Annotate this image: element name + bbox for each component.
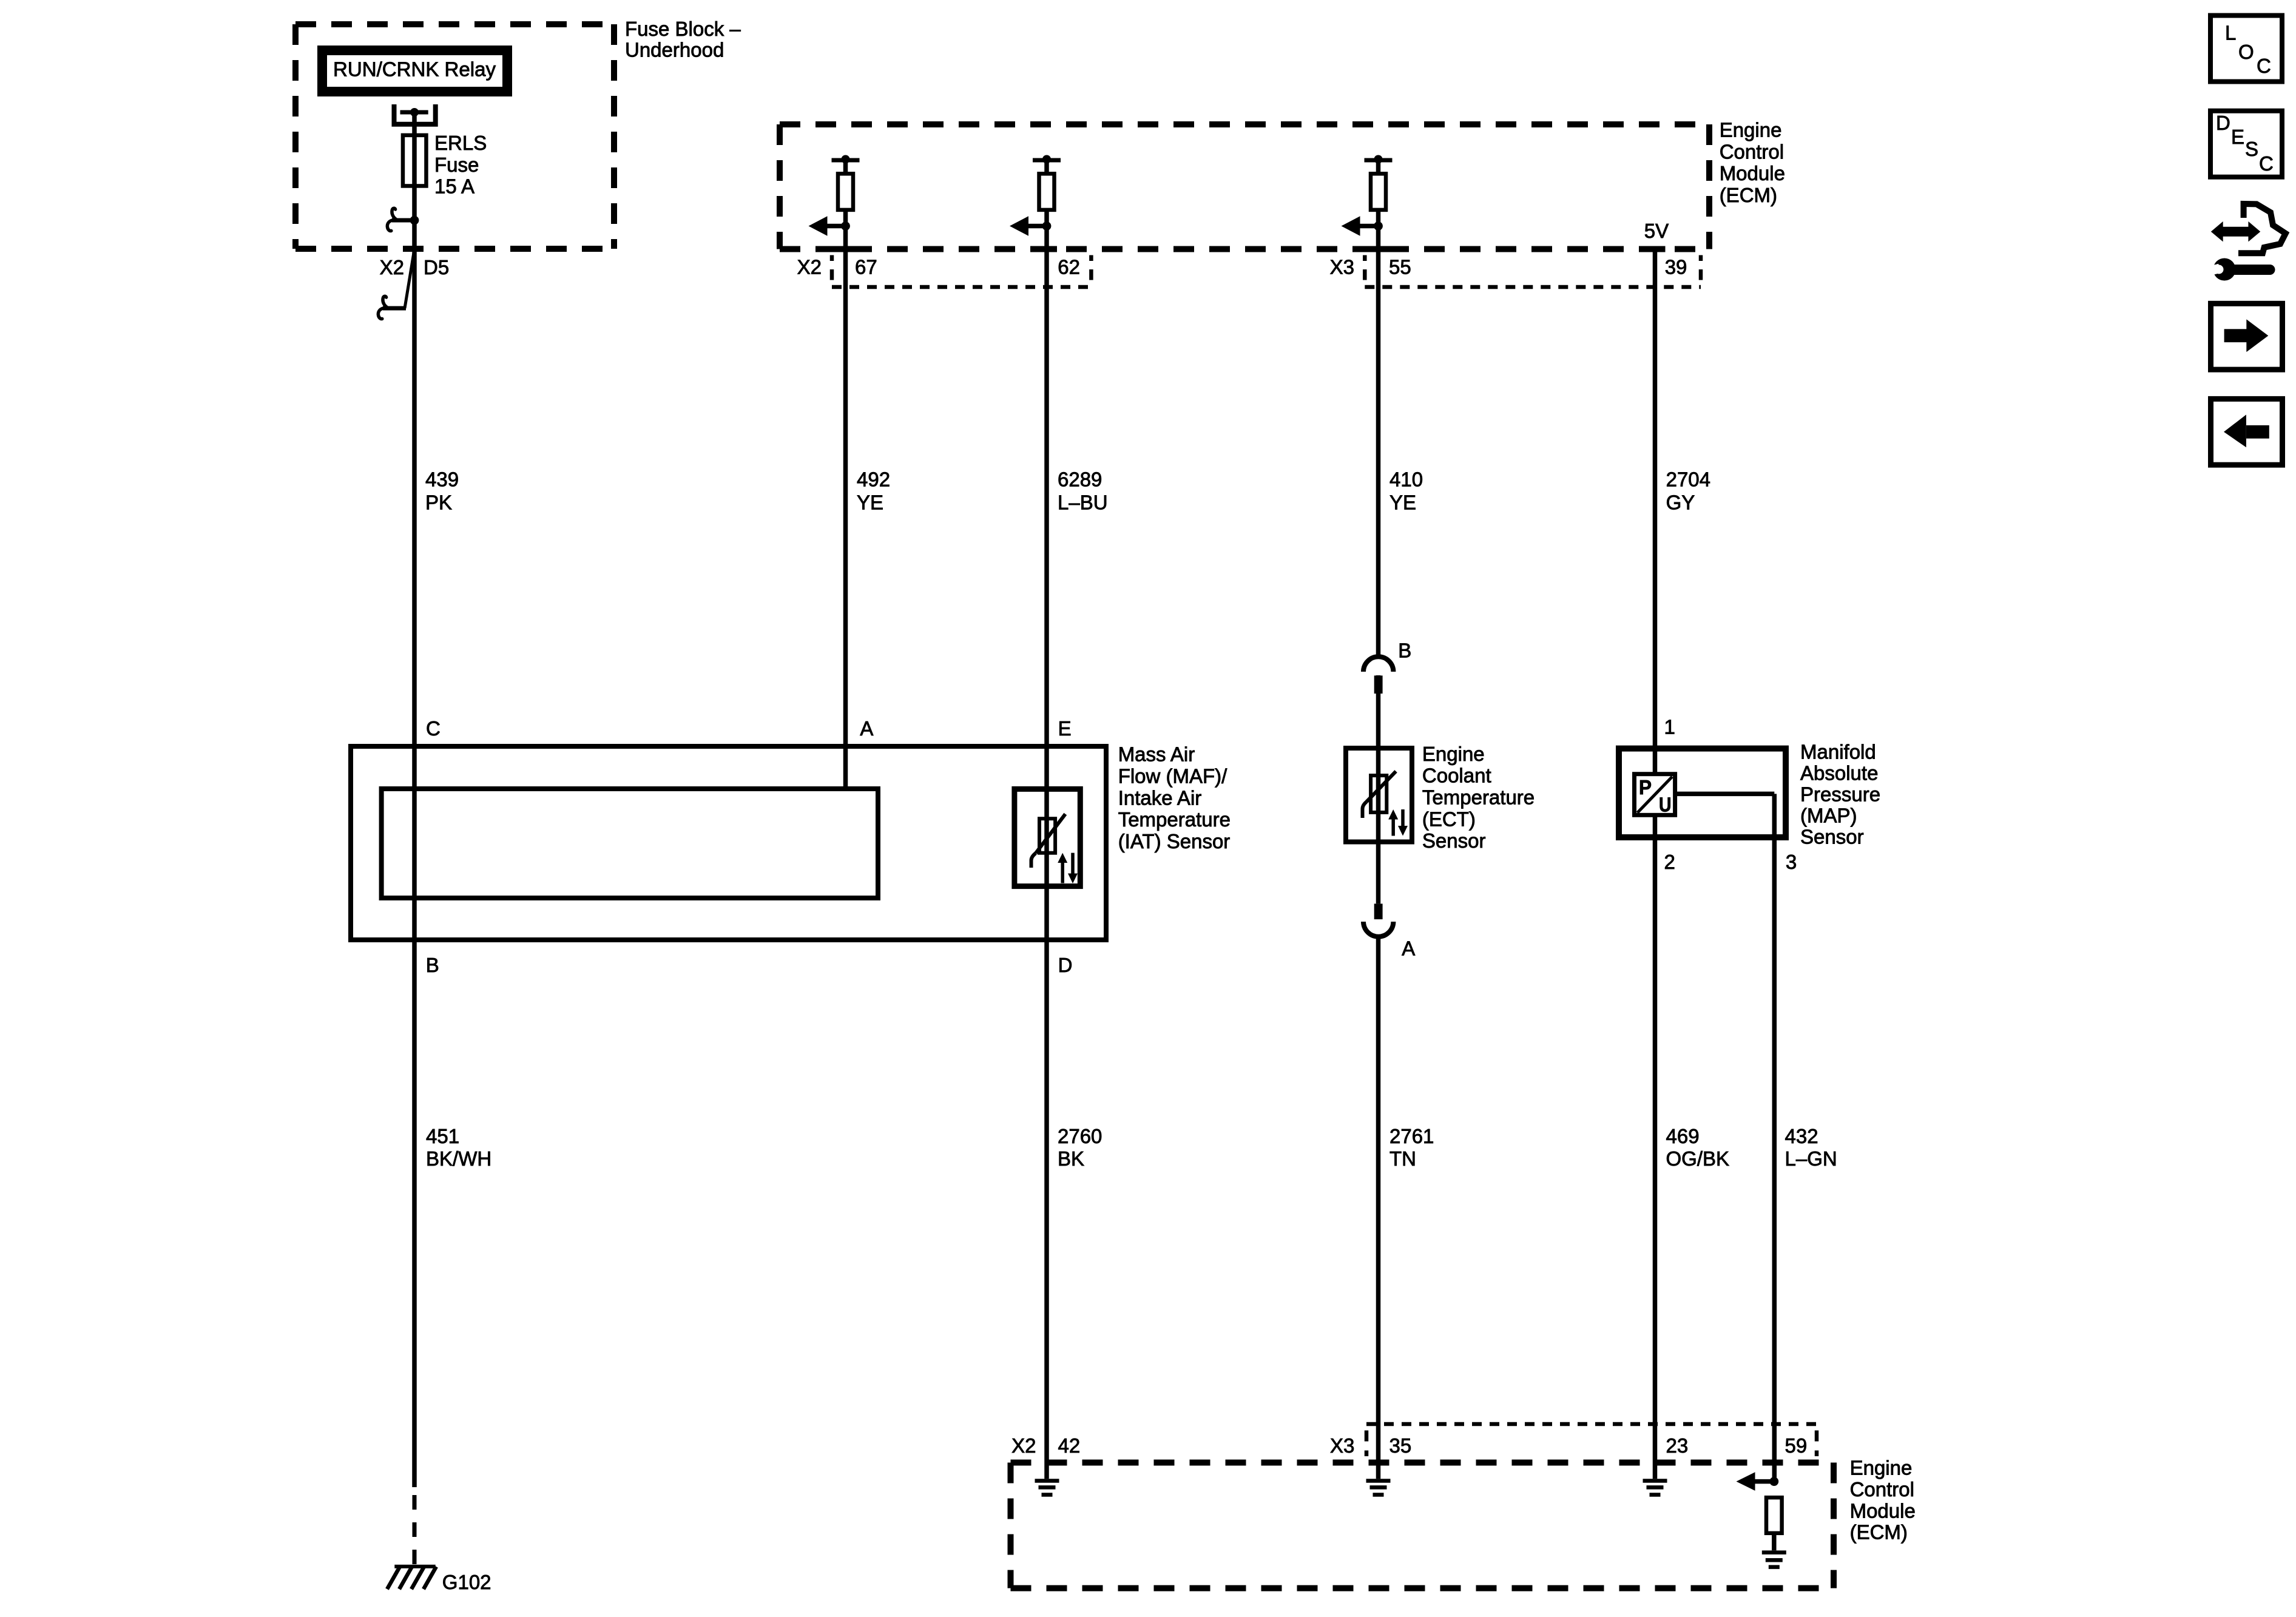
svg-text:E: E [2231,126,2244,148]
svg-text:Sensor: Sensor [1800,826,1864,848]
wire 469 OG/BK segment below P/U [1653,815,1658,1479]
ECT up arrow [1388,809,1398,836]
ECM top dashed box [780,124,1709,249]
wire label 410 YE [1389,468,1423,513]
ground at pin 23 [1643,1481,1667,1495]
svg-text:Temperature: Temperature [1118,808,1231,831]
svg-text:ERLS: ERLS [434,132,487,154]
svg-text:L: L [2225,22,2236,44]
svg-text:Engine: Engine [1720,119,1782,141]
svg-text:492: 492 [857,468,890,490]
ground at pin 35 [1366,1481,1391,1495]
svg-text:Sensor: Sensor [1422,829,1486,852]
terminal clip at junction [387,208,414,231]
wire inside ECT [1376,748,1381,903]
svg-text:C: C [426,717,441,740]
IAT thermistor RT [1032,814,1065,868]
svg-text:YE: YE [857,491,883,513]
ground G102 symbol [387,1567,436,1589]
ECT connector half-circle B [1363,657,1393,672]
junction dot below fuse [410,216,419,225]
MAF/IAT sensor outer box [351,746,1106,940]
svg-text:O: O [2238,41,2254,63]
MAF inner element box [382,789,878,898]
ECM bottom dashed box [1011,1463,1834,1588]
dashed wire to ground G102 [413,1495,417,1565]
icon engine outline [2238,204,2286,253]
fuse F ERLS 15A [403,135,427,186]
svg-text:U: U [1659,794,1672,816]
svg-text:Control: Control [1850,1478,1914,1501]
pin labels bottom ECM [1011,1434,1807,1457]
svg-text:39: 39 [1665,256,1687,279]
wire label 2704 GY [1666,468,1710,513]
svg-text:X2: X2 [797,256,822,279]
fuse block label [625,18,741,61]
terminal clip at X2/D5 [378,296,406,319]
svg-text:Mass Air: Mass Air [1118,743,1195,766]
svg-text:2760: 2760 [1058,1125,1102,1147]
ECT sensor label [1422,743,1535,852]
svg-text:42: 42 [1058,1434,1081,1457]
MAP transducer diagonal [1638,777,1673,813]
wire label 492 YE [857,468,890,513]
ECT sensor box [1346,748,1412,842]
svg-text:OG/BK: OG/BK [1666,1147,1730,1170]
svg-text:P: P [1639,776,1652,798]
IAT element box [1015,789,1080,886]
svg-text:451: 451 [426,1125,459,1147]
resistor R-ECM1 (pin 67 pull-up) [832,155,860,226]
svg-text:S: S [2245,138,2258,160]
wire 410 YE upper segment [1376,226,1381,660]
pin labels top ECM [797,256,1687,279]
wire 2704 GY upper segment [1653,249,1658,774]
svg-text:X2: X2 [380,256,404,279]
svg-text:(MAP): (MAP) [1800,805,1857,827]
svg-text:Intake Air: Intake Air [1118,786,1202,809]
svg-text:5V: 5V [1644,220,1669,242]
junction dot and arrow at pin 59 [1737,1472,1779,1491]
icon diagnostic double arrow [2211,221,2261,242]
ground at pin 42 [1035,1481,1059,1495]
fuse holder cup bracket [394,104,436,124]
IAT down arrow [1068,853,1078,883]
wire 6289 L-BU / 2760 BK [1044,226,1049,1479]
connector pin box X3 bottom (35..23..59) [1366,1424,1817,1456]
wire label 469 OG/BK [1666,1125,1730,1170]
relay K? RUN/CRNK Relay box [322,50,507,92]
svg-text:C: C [2257,55,2271,77]
svg-text:BK/WH: BK/WH [426,1147,491,1170]
svg-text:1: 1 [1664,716,1675,738]
svg-text:Temperature: Temperature [1422,786,1535,809]
svg-text:Fuse: Fuse [434,154,479,176]
svg-text:B: B [426,954,439,976]
svg-text:G102: G102 [442,1571,491,1593]
wire label 2761 TN [1389,1125,1434,1170]
MAP pin numbers [1664,716,1797,874]
svg-text:6289: 6289 [1058,468,1102,490]
junction dot at fuse top [410,108,419,116]
resistor R-ECM4 (pin 59) [1766,1497,1782,1550]
ECT connector half-circle A [1363,922,1393,937]
resistor R-ECM2 (pin 62 pull-up) [1033,155,1061,226]
svg-text:432: 432 [1785,1125,1818,1147]
svg-text:PK: PK [425,491,452,513]
wire 492 YE [843,226,848,789]
svg-text:BK: BK [1058,1147,1084,1170]
connector pin box X3 (55..39) [1365,255,1701,288]
svg-text:Fuse Block –: Fuse Block – [625,18,741,40]
svg-text:Flow (MAF)/: Flow (MAF)/ [1118,765,1227,788]
wire label 451 BK/WH [426,1125,491,1170]
svg-text:L–GN: L–GN [1785,1147,1837,1170]
MAP sensor label [1800,740,1880,848]
svg-text:TN: TN [1389,1147,1416,1170]
svg-text:35: 35 [1389,1434,1412,1457]
svg-text:Module: Module [1720,162,1785,184]
svg-text:X2: X2 [1011,1434,1036,1457]
MAF sensor label [1118,743,1231,852]
svg-text:62: 62 [1058,256,1080,279]
MAP P/U transducer square [1635,774,1675,815]
svg-text:E: E [1058,717,1072,740]
svg-text:469: 469 [1666,1125,1700,1147]
svg-text:3: 3 [1786,851,1797,873]
wire 432 L-GN [1772,794,1777,1481]
ECT down arrow [1398,809,1408,836]
svg-text:(ECT): (ECT) [1422,808,1476,830]
svg-text:Pressure: Pressure [1800,783,1880,806]
svg-text:2: 2 [1664,851,1675,873]
svg-text:X3: X3 [1330,256,1354,279]
svg-text:Module: Module [1850,1499,1916,1522]
svg-text:(ECM): (ECM) [1720,184,1777,206]
svg-text:A: A [1402,937,1415,959]
wire label 439 PK [425,468,459,513]
svg-text:439: 439 [425,468,459,490]
svg-text:GY: GY [1666,491,1695,513]
IAT up arrow [1058,853,1067,883]
svg-text:YE: YE [1389,491,1416,513]
svg-text:55: 55 [1389,256,1411,279]
fuse label [434,132,487,198]
connector pin box X2 (67..62) [832,255,1091,288]
MAP internal link to pin 3 [1677,792,1774,797]
svg-text:Engine: Engine [1422,743,1485,765]
junction dot and arrow at pin 67 [809,216,850,236]
svg-text:Control: Control [1720,140,1784,163]
svg-text:Engine: Engine [1850,1457,1913,1479]
svg-text:L–BU: L–BU [1058,491,1108,513]
svg-text:(ECM): (ECM) [1850,1521,1908,1544]
wire 2761 TN lower segment [1376,938,1381,1479]
MAF pin letters [426,717,1073,976]
wire label 432 L-GN [1785,1125,1837,1170]
MAP sensor box [1619,749,1786,837]
svg-text:Coolant: Coolant [1422,765,1491,787]
svg-text:C: C [2259,152,2274,175]
svg-text:RUN/CRNK Relay: RUN/CRNK Relay [333,58,496,81]
resistor R-ECM3 (pin 55 pull-up) [1365,155,1393,226]
junction dot and arrow at pin 62 [1010,216,1051,236]
svg-text:67: 67 [855,256,877,279]
icon DESC box [2210,111,2282,177]
svg-text:Manifold: Manifold [1800,740,1876,763]
svg-text:2704: 2704 [1666,468,1710,490]
wire label 2760 BK [1058,1125,1102,1170]
ECM top label [1720,119,1785,206]
svg-text:410: 410 [1389,468,1423,490]
svg-text:23: 23 [1666,1434,1689,1457]
ECT terminal lower [1374,903,1383,919]
ECT terminal upper [1374,675,1383,694]
svg-text:Absolute: Absolute [1800,761,1878,784]
svg-text:Underhood: Underhood [625,39,724,61]
svg-text:(IAT) Sensor: (IAT) Sensor [1118,830,1231,852]
svg-text:D5: D5 [424,256,449,279]
ECM bottom label [1850,1457,1916,1544]
svg-text:D: D [2216,112,2230,134]
svg-text:B: B [1398,640,1411,662]
icon LOC box [2210,16,2282,82]
connector pass-through diagonal X2/D5 [405,249,414,309]
junction dot and arrow at pin 55 [1342,216,1383,236]
svg-text:59: 59 [1785,1434,1808,1457]
svg-text:15 A: 15 A [434,175,474,198]
ECT thermistor RT [1363,771,1396,818]
connector label X2 | D5 [380,256,450,279]
svg-text:A: A [860,717,873,740]
icon back arrow box [2211,399,2283,465]
fuse holder T-bar [400,110,428,115]
svg-text:2761: 2761 [1389,1125,1434,1147]
ground inside ECM at pin 59 [1762,1553,1786,1567]
svg-text:D: D [1058,954,1073,976]
fuse block underhood dashed box [295,24,614,249]
wire label 6289 L-BU [1058,468,1108,513]
wire into ECT [1376,675,1381,748]
icon forward arrow box [2211,303,2283,370]
wire segment: relay feed to fuse [412,112,417,1487]
icon wrench [2203,258,2270,281]
svg-text:X3: X3 [1330,1434,1354,1457]
